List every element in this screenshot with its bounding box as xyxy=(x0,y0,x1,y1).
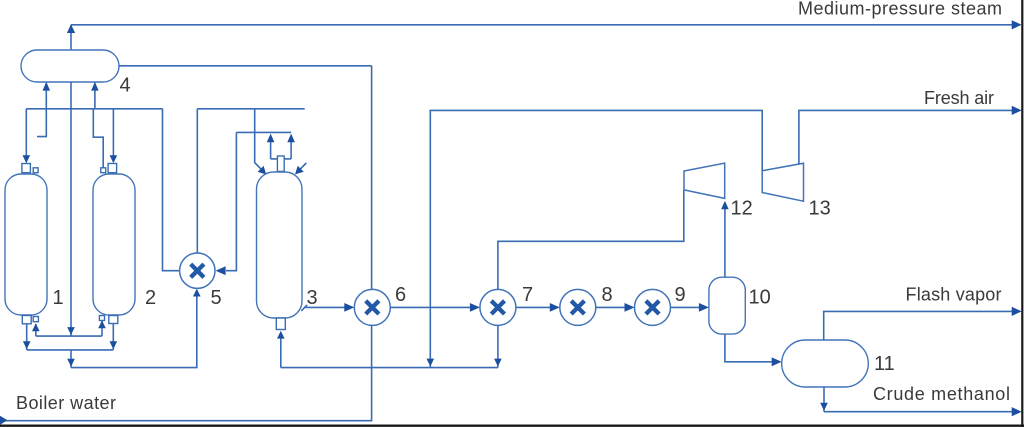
pump 8 (circle-x) xyxy=(560,289,596,325)
wire: feed to vessel 2 small top nozzle xyxy=(93,109,103,168)
wire: riser small nozzle vessel 2 xyxy=(101,321,103,336)
wire: turbine 13 to fresh air line xyxy=(799,110,1013,164)
wire: vessel 10 bottom to vessel 11 xyxy=(725,334,773,362)
vessel 10 (separator) xyxy=(709,277,745,334)
wire: boiler water riser above pump 6 xyxy=(371,66,373,290)
svg-text:5: 5 xyxy=(211,287,222,309)
pump 5 (circle-x) xyxy=(180,253,215,288)
arrow up into vessel 3 bottom nozzle xyxy=(277,331,285,339)
arrow up into vessel 1 small nozzle xyxy=(32,323,40,331)
wire: steam riser from drum 4 xyxy=(70,25,72,50)
svg-text:1: 1 xyxy=(53,287,64,309)
wire: vapor branch left with arrow xyxy=(270,142,272,159)
frame bottom border xyxy=(0,425,1024,427)
arrow flash vapor outlet xyxy=(1012,307,1022,316)
wire: pump 8 to pump 9 xyxy=(596,306,626,308)
arrow fresh air outlet xyxy=(1012,106,1022,115)
nozzle: vessel 1 bottom small xyxy=(33,317,38,322)
wire: riser into vessel 3 bottom xyxy=(280,337,282,368)
wire: drop from vessel 1 big nozzle xyxy=(26,324,28,350)
svg-text:13: 13 xyxy=(809,198,831,220)
svg-text:6: 6 xyxy=(395,284,406,306)
arrow into pump 9 xyxy=(625,303,635,312)
arrow into pump 6 xyxy=(344,303,354,312)
svg-text:Fresh air: Fresh air xyxy=(924,88,994,108)
wire: header segment 1 xyxy=(26,108,162,110)
svg-text:8: 8 xyxy=(602,284,613,306)
svg-text:Medium-pressure steam: Medium-pressure steam xyxy=(798,0,1002,19)
wire: pump 6 to pump 7 xyxy=(390,306,471,308)
arrow diagonal into vessel 3 right shoulder xyxy=(295,166,304,175)
nozzle: vessel 2 bottom small xyxy=(99,316,104,321)
turbine 12 xyxy=(684,163,725,198)
arrow down from pump 7 xyxy=(494,359,502,367)
arrow down at crude methanol elbow xyxy=(820,403,828,411)
arrow into pump 8 xyxy=(550,303,560,312)
arrow up into pump 5 bottom xyxy=(193,289,201,297)
arrow into vessel 10 xyxy=(699,303,709,312)
arrow down into vessel 2 nozzle xyxy=(110,155,118,163)
arrow down on blowdown drop xyxy=(67,359,75,367)
wire: purge line to turbine 13 xyxy=(430,110,762,367)
wire: recycle manifold xyxy=(281,367,498,369)
arrow down onto big manifold left xyxy=(23,341,31,349)
arrow down onto small manifold xyxy=(67,327,75,335)
svg-text:Flash vapor: Flash vapor xyxy=(906,285,1002,305)
svg-text:9: 9 xyxy=(675,284,686,306)
wire: vessel 3 outlet to pump 6 xyxy=(304,306,346,308)
wire: pump 9 to vessel 10 xyxy=(671,306,701,308)
nozzle: vessel 2 top big xyxy=(108,164,117,173)
wire: feed down to vessel 2 big top nozzle xyxy=(112,109,114,156)
wire: drop from vessel 2 big nozzle xyxy=(112,324,114,350)
wire: vapor branch left foot xyxy=(271,158,278,160)
svg-text:2: 2 xyxy=(145,287,156,309)
wire: diagonal into vessel 3 right shoulder xyxy=(300,163,307,170)
arrow up into vessel 2 small nozzle xyxy=(98,320,106,328)
nozzle: vessel 1 top small xyxy=(33,168,38,173)
nozzle: vessel 3 side outlet tick xyxy=(301,305,307,311)
arrow down onto recycle manifold from purge xyxy=(427,359,435,367)
svg-text:10: 10 xyxy=(749,287,771,309)
arrow up into steam line xyxy=(67,24,75,33)
svg-text:11: 11 xyxy=(874,353,895,375)
svg-text:12: 12 xyxy=(731,198,753,220)
wire: pump 7 top to turbine 12 xyxy=(498,190,684,289)
wire: vapor branch right with arrow xyxy=(290,142,292,159)
wire: riser into drum 4 left xyxy=(45,83,47,109)
svg-text:3: 3 xyxy=(307,287,318,309)
wire: vessel 3 vapor to pump 5 right inlet xyxy=(226,132,236,270)
arrow up vapor right xyxy=(287,134,295,143)
arrow boiler water inlet xyxy=(0,416,7,425)
arrow crude methanol outlet xyxy=(1012,407,1022,416)
vessel 3 (column) xyxy=(257,172,303,318)
arrow down into vessel 1 nozzle xyxy=(23,155,31,163)
wire: manifold big nozzles xyxy=(27,349,114,351)
wire: blowdown drop to bottom run xyxy=(70,350,72,368)
wire: header down into pump 5 top xyxy=(196,109,198,253)
wire: center line from drum 4 down to manifold xyxy=(70,82,72,336)
wire: feed down to vessel 1 top nozzle xyxy=(25,109,27,156)
arrow up vapor left xyxy=(267,134,275,143)
nozzle: vessel 3 bottom xyxy=(276,318,285,330)
arrow into vessel 11 xyxy=(772,357,782,366)
svg-text:Crude methanol: Crude methanol xyxy=(873,384,1010,404)
wire: header down to vessel 3 left shoulder xyxy=(255,109,262,170)
wire: medium-pressure steam line xyxy=(71,24,1013,26)
wire: crude methanol line xyxy=(824,411,1013,413)
wire: riser small nozzle vessel 1 xyxy=(35,324,37,336)
turbine 13 xyxy=(762,163,803,201)
wire: crude methanol drop from vessel 11 xyxy=(823,387,825,412)
nozzle: vessel 1 bottom big xyxy=(22,316,31,324)
wire: vapor header above vessel 3 xyxy=(236,131,291,133)
wire: pump 7 bottom to recycle manifold xyxy=(497,325,499,367)
wire: free-ended stub near vessel 1 xyxy=(37,109,46,137)
svg-text:Boiler water: Boiler water xyxy=(16,393,116,413)
arrow down onto big manifold right xyxy=(110,341,118,349)
wire: header segment 2 xyxy=(197,108,304,110)
nozzle: vessel 1 top big xyxy=(22,164,31,173)
pump 9 (circle-x) xyxy=(635,289,671,325)
wire: vessel 10 top to turbine 12 xyxy=(724,209,726,277)
wire: bottom run to pump 5 xyxy=(71,296,197,368)
frame right border xyxy=(1021,0,1023,427)
wire: drum 4 right outlet to boiler-water riser xyxy=(119,65,372,67)
pump 7 (circle-x) xyxy=(480,289,516,325)
wire: manifold small nozzles xyxy=(36,335,102,337)
vessel 1 (reactor) xyxy=(5,174,47,315)
pump 6 (circle-x) xyxy=(354,289,390,325)
wire: flash vapor line xyxy=(824,311,1013,340)
arrow up into drum 4 right xyxy=(91,82,99,91)
arrow diagonal into vessel 3 left shoulder xyxy=(258,166,267,175)
wire: riser into drum 4 right xyxy=(94,83,96,109)
wire: boiler water riser below pump 6 xyxy=(0,325,372,420)
arrow into pump 7 xyxy=(470,303,480,312)
arrow steam outlet xyxy=(1012,20,1022,29)
nozzle: vessel 3 top xyxy=(277,156,284,171)
wire: vapor branch right foot xyxy=(284,158,291,160)
vessel 11 (flash drum) xyxy=(782,340,869,387)
nozzle: vessel 2 top small xyxy=(101,168,106,173)
arrow up into drum 4 left xyxy=(43,82,51,91)
arrow left into pump 5 xyxy=(216,266,226,275)
wire: pump 7 to pump 8 xyxy=(516,306,551,308)
svg-text:4: 4 xyxy=(120,75,131,97)
arrow up into turbine 12 xyxy=(721,201,729,209)
nozzle: vessel 2 bottom big xyxy=(109,316,118,324)
wire: header to pump 5 left inlet xyxy=(163,109,180,271)
svg-text:7: 7 xyxy=(522,284,533,306)
vessel 2 (reactor) xyxy=(93,174,135,315)
vessel 4 (steam drum) xyxy=(21,50,119,82)
